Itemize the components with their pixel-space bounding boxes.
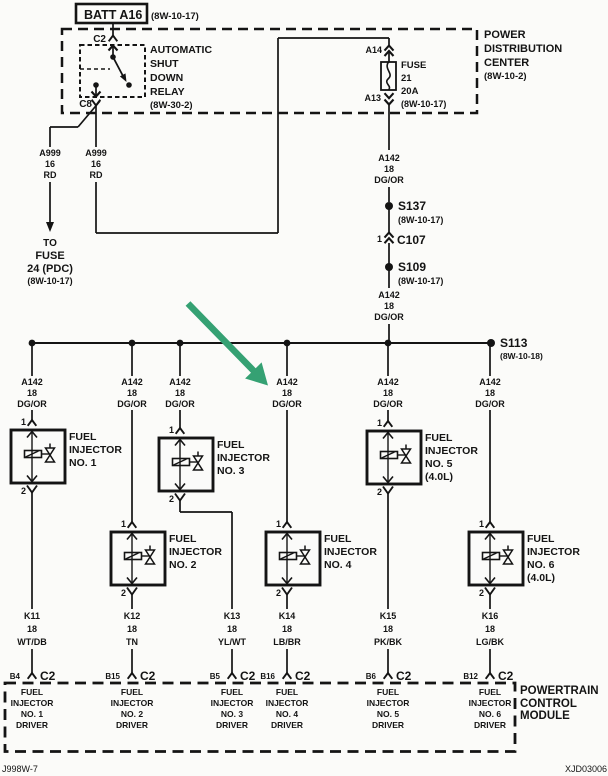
fuel injector no. 2 box <box>111 532 165 585</box>
wire K from injector 2 to PCM <box>131 594 133 609</box>
svg-text:18: 18 <box>27 624 37 634</box>
svg-text:NO. 1: NO. 1 <box>21 709 43 719</box>
svg-text:J998W-7: J998W-7 <box>2 764 38 774</box>
svg-text:1: 1 <box>276 519 281 529</box>
connector fork B12 at PCM <box>486 673 495 679</box>
svg-text:S113: S113 <box>500 336 528 350</box>
svg-text:(8W-10-17): (8W-10-17) <box>151 11 199 22</box>
svg-text:C2: C2 <box>40 669 56 683</box>
connector fork B4 at PCM <box>28 673 37 679</box>
svg-text:FUSE: FUSE <box>401 60 426 71</box>
relay output contact <box>93 82 99 88</box>
connector fork B15 at PCM <box>128 673 137 679</box>
svg-text:18: 18 <box>383 624 393 634</box>
wire A142 branch to injector no. 4 <box>286 343 288 376</box>
connector C8 symbol <box>92 100 101 106</box>
connector fork at injector 4 pin 1 <box>283 522 292 528</box>
wire A142 branch to injector no. 1 <box>31 343 33 376</box>
svg-text:BATT A16: BATT A16 <box>84 8 142 22</box>
svg-text:A14: A14 <box>365 45 382 55</box>
svg-text:INJECTOR: INJECTOR <box>169 546 222 558</box>
svg-text:C107: C107 <box>397 233 426 247</box>
fuel injector no. 6 box <box>469 532 523 585</box>
connector fork B6 at PCM <box>384 673 393 679</box>
svg-text:B5: B5 <box>210 672 221 681</box>
wire from BATT A16 down to connector C2 <box>112 23 114 35</box>
wire segment to pin 1 of injector 2 <box>131 410 133 522</box>
svg-text:C2: C2 <box>240 669 256 683</box>
injector 5 solenoid coil <box>381 452 398 459</box>
svg-text:1: 1 <box>169 425 174 435</box>
splice S113 <box>487 339 495 347</box>
left A999 wire with arrow to fuse 24 <box>49 182 51 223</box>
svg-text:PK/BK: PK/BK <box>374 637 403 647</box>
wire K from injector 3 to PCM <box>179 500 181 512</box>
injector 1 internal wire with arrows <box>31 432 33 481</box>
svg-text:FUEL: FUEL <box>169 533 197 545</box>
svg-text:B6: B6 <box>366 672 377 681</box>
svg-text:DRIVER: DRIVER <box>216 720 248 730</box>
fuse feed wire A14 <box>388 38 390 47</box>
wire K from injector 5 to PCM <box>387 493 389 609</box>
svg-text:B16: B16 <box>260 672 275 681</box>
svg-text:DG/OR: DG/OR <box>373 399 403 409</box>
connector fork at injector 2 pin 2 <box>127 588 137 595</box>
connector fork at injector 1 pin 2 <box>27 486 37 493</box>
svg-text:DRIVER: DRIVER <box>16 720 48 730</box>
injector 2 internal wire with arrows <box>131 534 133 583</box>
svg-text:K14: K14 <box>279 611 296 621</box>
injector 6 pintle valve <box>504 550 513 557</box>
svg-text:S109: S109 <box>398 260 426 274</box>
svg-text:INJECTOR: INJECTOR <box>266 698 309 708</box>
wire A142 from fuse down <box>388 105 390 150</box>
wire from C8 down to A999 label <box>95 105 97 147</box>
svg-text:RD: RD <box>44 170 57 180</box>
wire segment to pin 1 of injector 3 <box>179 410 181 428</box>
svg-text:24 (PDC): 24 (PDC) <box>27 263 73 275</box>
svg-text:FUEL: FUEL <box>425 432 453 444</box>
splice S137 <box>385 202 393 210</box>
svg-text:C2: C2 <box>295 669 311 683</box>
wire A142 branch to injector no. 5 <box>387 343 389 376</box>
svg-text:TO: TO <box>43 238 57 249</box>
battery feed box BATT A16 <box>76 4 147 23</box>
connector symbol at A14 <box>385 46 394 51</box>
svg-text:NO. 4: NO. 4 <box>324 559 352 571</box>
injector 3 internal wire with arrows <box>179 440 181 489</box>
wire A142 branch to injector no. 6 <box>489 343 491 376</box>
wire A142 branch to injector no. 2 <box>131 343 133 376</box>
wire segment to PCM connector B4 <box>31 649 33 673</box>
svg-text:FUEL: FUEL <box>221 687 243 697</box>
connector fork at injector 5 pin 2 <box>383 487 393 494</box>
svg-text:INJECTOR: INJECTOR <box>217 452 270 464</box>
relay switch arm <box>113 57 123 76</box>
wire segment to PCM connector B5 <box>231 649 233 673</box>
wire K from injector 1 to PCM <box>31 492 33 609</box>
svg-text:A13: A13 <box>364 93 381 103</box>
svg-text:C8: C8 <box>79 99 92 110</box>
svg-text:DOWN: DOWN <box>150 72 183 84</box>
relay output wire to C8 <box>95 85 97 96</box>
svg-text:DRIVER: DRIVER <box>116 720 148 730</box>
svg-text:DISTRIBUTION: DISTRIBUTION <box>484 43 562 55</box>
wire segment to pin 1 of injector 4 <box>286 410 288 522</box>
svg-text:INJECTOR: INJECTOR <box>11 698 54 708</box>
svg-text:NO. 4: NO. 4 <box>276 709 298 719</box>
svg-text:A999: A999 <box>39 148 61 158</box>
svg-text:RELAY: RELAY <box>150 86 185 98</box>
connector C2 symbol <box>109 36 118 42</box>
wire segment to pin 1 of injector 1 <box>31 410 33 420</box>
svg-text:B15: B15 <box>105 672 120 681</box>
svg-text:18: 18 <box>384 301 394 311</box>
svg-text:18: 18 <box>383 388 393 398</box>
svg-text:18: 18 <box>27 388 37 398</box>
svg-text:2: 2 <box>21 486 26 496</box>
bus junction for injector no. 5 <box>385 340 392 347</box>
svg-text:DRIVER: DRIVER <box>271 720 303 730</box>
automatic shut down relay dashed box <box>80 45 145 97</box>
svg-text:1: 1 <box>377 234 382 244</box>
svg-text:(8W-10-17): (8W-10-17) <box>27 276 72 286</box>
svg-text:INJECTOR: INJECTOR <box>469 698 512 708</box>
relay stationary contact <box>126 82 132 88</box>
svg-text:1: 1 <box>121 519 126 529</box>
connector fork at injector 6 pin 1 <box>486 522 495 528</box>
wire K from injector 6 to PCM <box>489 594 491 609</box>
svg-text:DG/OR: DG/OR <box>117 399 147 409</box>
svg-text:A142: A142 <box>276 377 298 387</box>
injector 3 pintle valve <box>194 456 203 463</box>
fuel injector no. 5 box <box>367 431 421 484</box>
connector fork at injector 2 pin 1 <box>128 522 137 528</box>
connector fork B5 at PCM <box>228 673 237 679</box>
splice bus wire to S113 <box>32 342 491 344</box>
svg-text:2: 2 <box>121 588 126 598</box>
svg-text:2: 2 <box>276 588 281 598</box>
connector fork at injector 4 pin 2 <box>282 588 292 595</box>
connector symbol at A13 <box>385 93 394 98</box>
svg-text:TN: TN <box>126 637 138 647</box>
svg-text:18: 18 <box>127 388 137 398</box>
connector C107 <box>385 233 394 238</box>
splice S109 <box>385 263 393 271</box>
svg-text:16: 16 <box>45 159 55 169</box>
svg-text:CENTER: CENTER <box>484 57 529 69</box>
injector 6 solenoid coil <box>483 553 500 560</box>
svg-text:INJECTOR: INJECTOR <box>527 546 580 558</box>
bus junction for injector no. 1 <box>29 340 36 347</box>
svg-text:AUTOMATIC: AUTOMATIC <box>150 44 212 56</box>
svg-text:A142: A142 <box>378 290 400 300</box>
wire segment to pin 1 of injector 6 <box>489 410 491 522</box>
svg-text:DRIVER: DRIVER <box>372 720 404 730</box>
svg-text:RD: RD <box>90 170 103 180</box>
svg-text:NO. 3: NO. 3 <box>221 709 243 719</box>
wire segment to pin 1 of injector 5 <box>387 410 389 421</box>
svg-text:K16: K16 <box>482 611 499 621</box>
svg-text:DG/OR: DG/OR <box>17 399 47 409</box>
wire A142 18 DG/OR label (lower) <box>388 267 390 288</box>
svg-text:CONTROL: CONTROL <box>520 698 577 710</box>
svg-text:FUEL: FUEL <box>21 687 43 697</box>
injector 4 solenoid coil <box>280 553 297 560</box>
svg-text:POWERTRAIN: POWERTRAIN <box>520 685 599 697</box>
svg-text:18: 18 <box>485 624 495 634</box>
svg-text:A142: A142 <box>21 377 43 387</box>
svg-text:FUEL: FUEL <box>479 687 501 697</box>
svg-text:INJECTOR: INJECTOR <box>367 698 410 708</box>
svg-text:INJECTOR: INJECTOR <box>69 444 122 456</box>
svg-text:2: 2 <box>377 487 382 497</box>
injector 4 pintle valve <box>301 550 310 557</box>
injector 2 solenoid coil <box>125 553 142 560</box>
connector fork at injector 6 pin 2 <box>485 588 495 595</box>
svg-text:1: 1 <box>21 417 26 427</box>
svg-text:A142: A142 <box>377 377 399 387</box>
svg-text:FUEL: FUEL <box>527 533 555 545</box>
power distribution center dashed box <box>62 29 477 113</box>
connector fork at injector 3 pin 2 <box>175 494 185 501</box>
svg-text:LG/BK: LG/BK <box>476 637 504 647</box>
connector fork at injector 1 pin 1 <box>28 420 37 426</box>
svg-text:C2: C2 <box>140 669 156 683</box>
svg-text:K11: K11 <box>24 611 40 621</box>
svg-text:1: 1 <box>479 519 484 529</box>
svg-text:B12: B12 <box>463 672 478 681</box>
svg-text:C2: C2 <box>93 34 106 45</box>
svg-text:NO. 6: NO. 6 <box>479 709 501 719</box>
svg-text:DRIVER: DRIVER <box>474 720 506 730</box>
svg-text:YL/WT: YL/WT <box>218 637 246 647</box>
wire segment to PCM connector B15 <box>131 649 133 673</box>
svg-text:XJD03006: XJD03006 <box>565 764 607 774</box>
svg-text:18: 18 <box>227 624 237 634</box>
svg-text:FUEL: FUEL <box>377 687 399 697</box>
svg-text:MODULE: MODULE <box>520 710 570 722</box>
svg-text:LB/BR: LB/BR <box>273 637 301 647</box>
svg-text:C2: C2 <box>396 669 412 683</box>
svg-text:FUSE: FUSE <box>35 250 64 262</box>
relay armature dashed linkage <box>80 68 110 70</box>
svg-text:INJECTOR: INJECTOR <box>324 546 377 558</box>
injector 4 internal wire with arrows <box>286 534 288 583</box>
svg-text:(8W-10-17): (8W-10-17) <box>398 215 443 225</box>
svg-text:C2: C2 <box>498 669 514 683</box>
wire segment to PCM connector B6 <box>387 649 389 673</box>
relay pivot contact <box>110 54 116 60</box>
svg-text:NO. 3: NO. 3 <box>217 465 245 477</box>
svg-text:INJECTOR: INJECTOR <box>211 698 254 708</box>
svg-text:(4.0L): (4.0L) <box>527 572 555 584</box>
svg-text:A142: A142 <box>479 377 501 387</box>
svg-text:(8W-10-2): (8W-10-2) <box>484 71 527 82</box>
svg-text:NO. 6: NO. 6 <box>527 559 555 571</box>
bus junction for injector no. 4 <box>284 340 291 347</box>
connector fork at injector 5 pin 1 <box>384 421 393 427</box>
svg-text:(4.0L): (4.0L) <box>425 471 453 483</box>
svg-text:K12: K12 <box>124 611 141 621</box>
svg-text:WT/DB: WT/DB <box>17 637 47 647</box>
svg-text:18: 18 <box>175 388 185 398</box>
svg-text:DG/OR: DG/OR <box>165 399 195 409</box>
injector 3 solenoid coil <box>173 459 190 466</box>
svg-text:20A: 20A <box>401 86 419 97</box>
fuel injector no. 4 box <box>266 532 320 585</box>
svg-text:2: 2 <box>169 494 174 504</box>
svg-text:DG/OR: DG/OR <box>374 175 404 185</box>
svg-text:NO. 5: NO. 5 <box>425 458 453 470</box>
svg-text:(8W-10-18): (8W-10-18) <box>500 351 543 361</box>
svg-text:NO. 2: NO. 2 <box>169 559 197 571</box>
svg-text:2: 2 <box>479 588 484 598</box>
svg-text:18: 18 <box>127 624 137 634</box>
svg-text:DG/OR: DG/OR <box>272 399 302 409</box>
green highlight arrow pointing at injector no. 4 circuit <box>186 301 268 385</box>
svg-text:NO. 5: NO. 5 <box>377 709 399 719</box>
svg-text:K15: K15 <box>380 611 397 621</box>
connector fork B16 at PCM <box>283 673 292 679</box>
wire segment to PCM connector B16 <box>286 649 288 673</box>
connector fork at injector 3 pin 1 <box>176 428 185 434</box>
injector 1 solenoid coil <box>25 451 42 458</box>
fuse 21 20A body <box>381 62 396 90</box>
svg-text:18: 18 <box>384 164 394 174</box>
svg-text:B4: B4 <box>10 672 21 681</box>
svg-text:NO. 1: NO. 1 <box>69 457 97 469</box>
wire K from injector 4 to PCM <box>286 594 288 609</box>
injector 5 pintle valve <box>402 449 411 456</box>
svg-text:FUEL: FUEL <box>121 687 143 697</box>
svg-text:FUEL: FUEL <box>69 431 97 443</box>
svg-text:(8W-30-2): (8W-30-2) <box>150 100 193 111</box>
svg-text:DG/OR: DG/OR <box>374 312 404 322</box>
wire A142 branch to injector no. 3 <box>179 343 181 376</box>
bus junction for injector no. 3 <box>177 340 184 347</box>
svg-text:POWER: POWER <box>484 29 526 41</box>
powertrain control module dashed box <box>5 683 515 752</box>
wire segment to PCM connector B12 <box>489 649 491 673</box>
fuel injector no. 3 box <box>159 438 213 491</box>
injector 1 pintle valve <box>46 448 55 455</box>
svg-text:18: 18 <box>282 388 292 398</box>
svg-text:21: 21 <box>401 73 412 84</box>
splice branch wire to fuse 24 <box>78 101 100 127</box>
svg-text:(8W-10-17): (8W-10-17) <box>401 99 446 109</box>
svg-text:18: 18 <box>282 624 292 634</box>
wire segment S137 to C107 <box>388 206 390 233</box>
fuel injector no. 1 box <box>11 430 65 483</box>
svg-text:DG/OR: DG/OR <box>475 399 505 409</box>
svg-text:FUEL: FUEL <box>324 533 352 545</box>
svg-text:FUEL: FUEL <box>276 687 298 697</box>
svg-text:A999: A999 <box>85 148 107 158</box>
svg-text:18: 18 <box>485 388 495 398</box>
svg-text:INJECTOR: INJECTOR <box>425 445 478 457</box>
svg-text:INJECTOR: INJECTOR <box>111 698 154 708</box>
svg-text:SHUT: SHUT <box>150 58 179 70</box>
svg-text:16: 16 <box>91 159 101 169</box>
svg-text:FUEL: FUEL <box>217 439 245 451</box>
svg-text:NO. 2: NO. 2 <box>121 709 143 719</box>
right A999 wire routing to fuse 21 <box>95 182 97 233</box>
svg-text:(8W-10-17): (8W-10-17) <box>398 276 443 286</box>
svg-text:A142: A142 <box>121 377 143 387</box>
svg-text:S137: S137 <box>398 199 426 213</box>
svg-text:K13: K13 <box>224 611 241 621</box>
bus junction for injector no. 2 <box>129 340 136 347</box>
svg-text:A142: A142 <box>378 153 400 163</box>
wire segment C107 to S109 <box>388 243 390 267</box>
injector 5 internal wire with arrows <box>387 433 389 482</box>
svg-text:1: 1 <box>377 418 382 428</box>
injector 2 pintle valve <box>146 550 155 557</box>
injector 6 internal wire with arrows <box>489 534 491 583</box>
svg-text:A142: A142 <box>169 377 191 387</box>
